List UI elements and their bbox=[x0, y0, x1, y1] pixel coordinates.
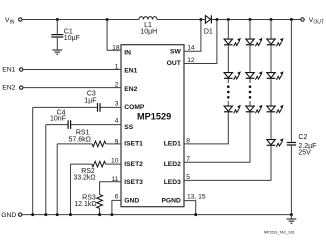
terminal VIN bbox=[5, 17, 22, 26]
node RS2 on rail bbox=[69, 213, 72, 216]
svg-text:VIN: VIN bbox=[5, 17, 15, 26]
svg-text:COMP: COMP bbox=[124, 104, 145, 111]
svg-text:LED2: LED2 bbox=[164, 161, 181, 168]
svg-text:10µH: 10µH bbox=[140, 29, 157, 36]
svg-text:ISET3: ISET3 bbox=[124, 179, 143, 186]
svg-text:MP1529_TAC_S01: MP1529_TAC_S01 bbox=[264, 231, 295, 235]
LED column 3 row 2 bbox=[267, 71, 284, 80]
node ellipsis column 1 bbox=[227, 85, 230, 98]
svg-text:MP1529: MP1529 bbox=[137, 112, 171, 122]
svg-text:4: 4 bbox=[115, 118, 119, 125]
wire PGND pins 13,15 bbox=[184, 201, 196, 215]
inductor L1 bbox=[139, 17, 157, 36]
svg-text:EN2: EN2 bbox=[124, 86, 137, 93]
wire L1 to D1 bbox=[157, 19, 205, 21]
wire column 1 to LED1 pin bbox=[184, 112, 228, 144]
diode D1 bbox=[204, 15, 213, 35]
LED column 3 row 4 bbox=[267, 138, 284, 147]
resistor RS1 bbox=[57, 130, 121, 147]
resistor RS2 bbox=[71, 161, 122, 181]
wire column 3 to LED3 pin bbox=[184, 145, 271, 180]
node C1 tap bbox=[56, 18, 59, 21]
svg-text:ISET2: ISET2 bbox=[124, 161, 143, 168]
capacitor C4 bbox=[46, 110, 121, 129]
svg-text:LED3: LED3 bbox=[164, 179, 181, 186]
LED column 2 row 2 bbox=[246, 71, 263, 80]
svg-text:10µF: 10µF bbox=[64, 35, 80, 42]
node OUT tap bbox=[215, 18, 218, 21]
svg-text:3: 3 bbox=[115, 101, 119, 108]
LED column 1 row 3 bbox=[224, 105, 241, 114]
wire bbox=[270, 45, 272, 72]
svg-text:EN1: EN1 bbox=[2, 67, 15, 74]
svg-text:C2: C2 bbox=[298, 134, 307, 141]
wire OUT pin 12 bbox=[184, 20, 217, 64]
node GND pin on rail bbox=[110, 213, 113, 216]
svg-text:SS: SS bbox=[124, 124, 133, 131]
wire column 1 from rail bbox=[227, 20, 229, 39]
wire RS2 drop bbox=[70, 164, 72, 215]
LED column 3 row 1 bbox=[267, 38, 284, 47]
wire D1 to VOUT bbox=[212, 19, 301, 21]
svg-text:PGND: PGND bbox=[161, 198, 180, 205]
svg-text:6: 6 bbox=[115, 194, 119, 201]
svg-text:GND: GND bbox=[124, 198, 139, 205]
svg-text:14: 14 bbox=[187, 45, 195, 52]
svg-text:1µF: 1µF bbox=[84, 98, 96, 105]
wire column 2 to LED2 pin bbox=[184, 112, 250, 163]
svg-text:OUT: OUT bbox=[167, 60, 182, 67]
wire GND pin 6 bbox=[112, 200, 121, 214]
svg-text:12: 12 bbox=[187, 57, 195, 64]
IC U1 MP1529 bbox=[121, 45, 184, 207]
svg-text:12.1kΩ: 12.1kΩ bbox=[74, 201, 96, 208]
wire bbox=[249, 101, 251, 106]
wire EN2 bbox=[23, 87, 121, 89]
wire bbox=[270, 78, 272, 105]
node LED column 3 top bbox=[270, 18, 273, 21]
capacitor C1 bbox=[51, 20, 80, 51]
wire C3 drop bbox=[32, 107, 34, 214]
wire ground rail bbox=[22, 214, 292, 216]
svg-text:D1: D1 bbox=[204, 28, 213, 35]
LED column 1 row 2 bbox=[224, 71, 241, 80]
svg-text:18: 18 bbox=[112, 45, 120, 52]
wire bbox=[270, 112, 272, 139]
wire bbox=[227, 101, 229, 106]
node C2 tap bbox=[290, 18, 293, 21]
svg-text:EN2: EN2 bbox=[2, 85, 15, 92]
node LED column 1 top bbox=[227, 18, 230, 21]
ground (C1) bbox=[52, 50, 62, 54]
ground (output) bbox=[287, 215, 297, 224]
wire bbox=[249, 78, 251, 83]
svg-text:57.6kΩ: 57.6kΩ bbox=[69, 136, 91, 143]
wire VIN to L1 bbox=[22, 19, 139, 21]
node C2 on rail bbox=[290, 213, 293, 216]
terminal EN2 bbox=[2, 85, 23, 92]
node RS1 on rail bbox=[56, 213, 59, 216]
capacitor C2 bbox=[287, 20, 317, 215]
svg-text:10: 10 bbox=[111, 157, 119, 164]
wire SW pin 14 bbox=[184, 20, 201, 52]
svg-text:LED1: LED1 bbox=[164, 140, 181, 147]
node PGND on rail bbox=[194, 213, 197, 216]
node IN tap bbox=[106, 18, 109, 21]
svg-text:VOUT: VOUT bbox=[309, 17, 324, 26]
wire column 2 from rail bbox=[249, 20, 251, 39]
LED column 1 row 1 bbox=[224, 38, 241, 47]
svg-text:33.2kΩ: 33.2kΩ bbox=[73, 175, 95, 182]
resistor RS3 bbox=[74, 182, 121, 215]
capacitor C3 bbox=[33, 91, 121, 112]
wire column 3 from rail bbox=[270, 20, 272, 39]
terminal VOUT bbox=[301, 17, 324, 26]
wire to IN pin 18 bbox=[107, 20, 121, 51]
wire EN1 bbox=[23, 69, 121, 71]
svg-text:GND: GND bbox=[1, 212, 16, 219]
terminal GND bbox=[1, 212, 22, 219]
svg-text:EN1: EN1 bbox=[124, 68, 137, 75]
node RS3 on rail bbox=[98, 213, 101, 216]
LED column 3 row 3 bbox=[267, 105, 284, 114]
wire RS1 drop bbox=[56, 144, 58, 215]
wire bbox=[227, 45, 229, 72]
svg-text:IN: IN bbox=[124, 50, 131, 57]
svg-text:25V: 25V bbox=[298, 150, 311, 157]
svg-text:SW: SW bbox=[170, 48, 181, 55]
node LED column 2 top bbox=[249, 18, 252, 21]
terminal EN1 bbox=[2, 67, 23, 74]
node C4 on rail bbox=[44, 213, 47, 216]
svg-text:ISET1: ISET1 bbox=[124, 140, 143, 147]
wire bbox=[249, 45, 251, 72]
node SW tap bbox=[199, 18, 202, 21]
LED column 2 row 3 bbox=[246, 105, 263, 114]
node ellipsis column 2 bbox=[249, 85, 252, 98]
svg-text:13, 15: 13, 15 bbox=[187, 194, 206, 201]
wire C4 drop bbox=[45, 125, 47, 215]
node C3 on rail bbox=[31, 213, 34, 216]
wire bbox=[227, 78, 229, 83]
LED column 2 row 1 bbox=[246, 38, 263, 47]
svg-text:10nF: 10nF bbox=[50, 116, 66, 123]
